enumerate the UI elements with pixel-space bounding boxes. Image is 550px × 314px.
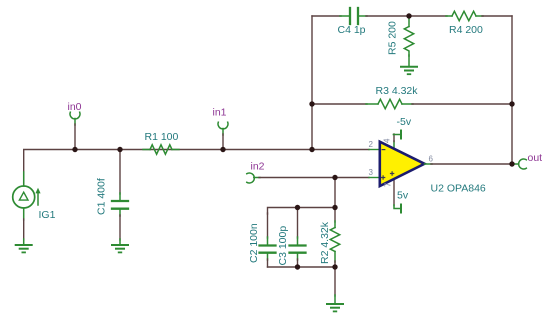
resistor R5 — [404, 16, 413, 67]
svg-text:R2 4.32k: R2 4.32k — [319, 221, 331, 264]
op-amp U2 OPA846 triangle — [380, 142, 425, 186]
ground under C1 — [112, 245, 128, 252]
ground under R5 — [401, 67, 417, 74]
resistor R2 — [330, 208, 339, 268]
svg-text:6: 6 — [429, 154, 434, 163]
ground under R2 — [327, 304, 343, 311]
op-amp non-inverting input plus mark — [382, 176, 385, 179]
svg-text:R5 200: R5 200 — [387, 21, 399, 55]
junction node in1/main — [220, 147, 225, 152]
svg-text:C2 100n: C2 100n — [248, 223, 260, 263]
op-amp U2 power pin 7 terminal 5v — [394, 178, 401, 213]
svg-text:-5v: -5v — [397, 116, 412, 128]
wire green stub into op-amp pin 2 — [369, 149, 380, 151]
junction node in0/main — [72, 147, 77, 152]
wire in2 node down to RC network — [334, 178, 336, 208]
terminal in2 — [247, 173, 255, 183]
junction node output/out — [509, 161, 514, 166]
svg-text:R1 100: R1 100 — [145, 131, 179, 143]
wire top row left segment — [312, 15, 341, 17]
svg-text:5v: 5v — [397, 190, 409, 202]
junction node top rail R2 — [332, 205, 337, 210]
terminal in1 — [218, 122, 228, 129]
wire C4 to R5 node to R4 — [366, 15, 447, 17]
op-amp U2 power pin 4 terminal -5v — [393, 131, 401, 151]
svg-text:C4 1p: C4 1p — [338, 24, 366, 36]
svg-text:U2 OPA846: U2 OPA846 — [431, 183, 486, 195]
svg-text:7: 7 — [384, 182, 393, 187]
junction node C1/main — [117, 147, 122, 152]
junction node R3 left — [309, 101, 314, 106]
wire green stub into op-amp pin 3 — [369, 177, 380, 179]
wire R3 row right segment — [412, 103, 512, 105]
junction node bottom rail C3 — [295, 264, 300, 269]
svg-text:IG1: IG1 — [39, 209, 56, 221]
capacitor C3 — [290, 208, 306, 268]
op-amp positive supply plus mark — [391, 172, 394, 175]
svg-text:C1 400f: C1 400f — [96, 178, 108, 215]
junction node feedback/main — [309, 147, 314, 152]
junction node C4/R5/R4 — [406, 13, 411, 18]
wire IG1 bottom lead to ground — [23, 208, 25, 220]
wire op-amp output pin 6 — [425, 163, 433, 165]
ground under IG1 — [16, 245, 32, 252]
wire bottom rail of C2 C3 R2 — [268, 266, 336, 268]
resistor R1 — [143, 145, 179, 154]
svg-text:in2: in2 — [251, 161, 265, 173]
wire R3 row left segment — [312, 103, 367, 105]
wire R4 to top right corner — [482, 15, 512, 17]
wire in2 to op-amp pin 3 — [254, 177, 260, 179]
op-amp inverting input minus mark — [382, 149, 385, 151]
svg-text:C3 100p: C3 100p — [277, 226, 289, 266]
svg-text:R3 4.32k: R3 4.32k — [376, 85, 419, 97]
terminal in0 — [70, 112, 80, 119]
resistor R3 — [366, 99, 413, 108]
wire top rail of C2 C3 R2 — [268, 208, 336, 215]
wire R2 node down to ground — [334, 267, 336, 296]
wire main horizontal net in0/in1 to pin2 — [24, 150, 369, 185]
svg-text:in0: in0 — [68, 101, 82, 113]
svg-text:out: out — [528, 152, 543, 164]
junction node R3 right — [509, 101, 514, 106]
current source IG1 — [13, 186, 41, 208]
wire in0 to main net — [74, 119, 76, 126]
wire IG1 top lead — [23, 172, 25, 186]
svg-text:R4 200: R4 200 — [449, 24, 483, 36]
junction node top rail C3 — [295, 205, 300, 210]
svg-text:3: 3 — [369, 168, 374, 177]
wire in1 to main net — [222, 129, 224, 136]
svg-text:4: 4 — [383, 138, 392, 143]
wire feedback left vertical x=312 — [311, 16, 313, 150]
svg-text:in1: in1 — [213, 107, 227, 119]
capacitor C2 — [260, 213, 276, 267]
terminal out — [512, 163, 519, 165]
junction node in2/RC branch — [332, 175, 337, 180]
junction node bottom rail R2 — [332, 264, 337, 269]
resistor R4 — [446, 11, 483, 20]
svg-text:2: 2 — [369, 140, 374, 149]
wire right vertical x=512 — [511, 16, 513, 164]
capacitor C1 — [112, 150, 128, 246]
capacitor C4 — [340, 8, 367, 24]
